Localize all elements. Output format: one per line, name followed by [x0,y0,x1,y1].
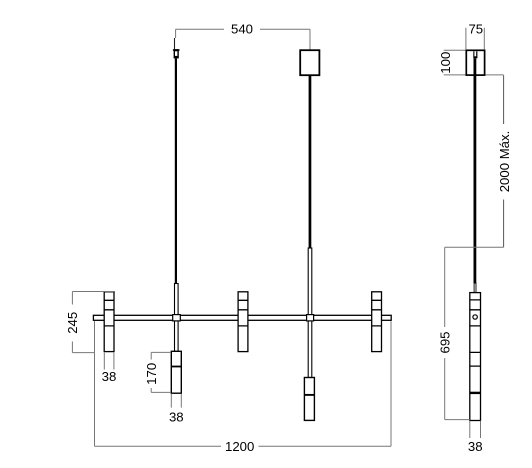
canopy (front view) [300,50,319,75]
svg-text:38: 38 [102,369,117,384]
svg-text:170: 170 [144,363,159,385]
svg-text:1200: 1200 [225,439,254,454]
svg-text:2000 Máx.: 2000 Máx. [497,131,512,193]
svg-text:245: 245 [65,312,80,334]
dimension 170 (middle pendant height) [151,352,171,392]
cable (side view) [474,58,477,283]
dimension 38 (middle pendant width) [171,394,181,408]
dimension 75 (canopy width, side view) [466,28,484,50]
dimension 695 (side body height) [445,247,504,419]
dimension 100 (canopy height, side view) [444,50,504,75]
rod 2 tube (stem of right pendant) [308,248,312,378]
cable gripper (front, left suspension) [173,38,180,58]
body cylinder (side view) [470,293,481,421]
stem tube (side view) [474,283,476,293]
dimension 540 [176,29,310,50]
rod 1 tube (stem of middle pendant) [175,284,179,352]
cable gripper (side view, inside canopy) [473,51,477,58]
dimension 1200 (bar length) [95,321,392,446]
dimension 2000 Max (suspension height) [503,75,505,247]
lamp cylinder L1 [104,292,114,352]
canopy (side view) [466,50,484,75]
node at rod 2 / bar crossing [307,315,314,321]
node at rod 1 / bar crossing [173,315,181,321]
dimension 245 [72,292,114,353]
horizontal bar [93,315,391,320]
lamp cylinder L3 [372,292,382,352]
cable 2 (thick stem from canopy) [309,75,312,248]
lamp cylinder L2 [238,292,248,352]
svg-text:38: 38 [468,439,483,454]
svg-text:540: 540 [231,22,253,37]
bar end circle (side view) [473,315,477,319]
svg-text:695: 695 [437,331,452,353]
svg-text:100: 100 [438,52,453,74]
cable 1 (thin suspension cable) [175,58,177,283]
dimension 38 (side body width) [470,421,481,438]
dimension 38 (lamp L1 width) [104,353,114,370]
svg-text:38: 38 [169,410,184,425]
pendant cylinder P1 (middle) [171,351,181,393]
svg-text:75: 75 [468,21,483,36]
pendant cylinder P2 (right) [304,378,314,421]
